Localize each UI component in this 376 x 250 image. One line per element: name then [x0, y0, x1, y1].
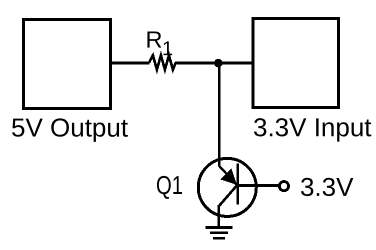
wire from resistor to node — [175, 61, 253, 64]
svg-text:5V Output: 5V Output — [11, 113, 129, 143]
block 5V Output — [24, 19, 111, 108]
svg-text:R: R — [146, 27, 163, 53]
svg-text:1: 1 — [162, 38, 173, 60]
svg-text:3.3V Input: 3.3V Input — [253, 112, 372, 142]
svg-text:Q1: Q1 — [156, 170, 183, 200]
terminal 3.3V open circle — [279, 182, 288, 191]
Q1 arrowhead — [220, 168, 237, 185]
ground — [205, 226, 232, 229]
node junction dot — [214, 59, 223, 68]
wire gate to terminal — [238, 184, 280, 187]
resistor R1 — [149, 55, 176, 69]
wire Q1 to ground — [217, 205, 220, 227]
wire node down to Q1 — [218, 63, 221, 167]
Q1 cathode bar — [236, 164, 239, 205]
svg-text:3.3V: 3.3V — [300, 172, 354, 202]
Q1 cathode diagonal — [219, 185, 237, 206]
wire from 5V box to resistor — [111, 61, 150, 64]
transistor Q1 body circle — [198, 158, 256, 216]
block 3.3V Input — [253, 19, 339, 108]
Q1 anode diagonal — [219, 166, 237, 186]
